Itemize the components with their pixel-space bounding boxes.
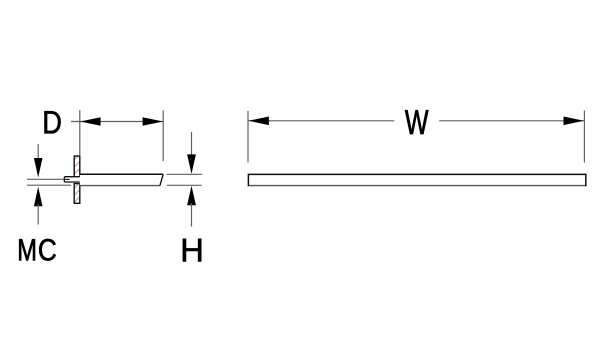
label W (405, 110, 428, 134)
W dimension line left segment (248, 120, 394, 122)
hub bottom (hatched washer lower part) (74, 184, 80, 204)
D left extension line (79, 110, 81, 156)
W bar left edge (247, 174, 249, 187)
blade top edge (80, 173, 163, 175)
D left arrowhead (80, 117, 100, 126)
MC bottom arrowhead (34, 187, 43, 207)
label H (183, 239, 201, 262)
hub top (hatched washer upper part) (74, 156, 80, 177)
MC lower extension line (27, 184, 71, 186)
D right extension line (162, 111, 164, 162)
W left extension line (247, 111, 249, 163)
W bar right edge (585, 174, 587, 187)
W left arrowhead (249, 117, 269, 126)
MC top arrowhead (34, 158, 43, 178)
W bar bottom edge (248, 185, 587, 187)
tab slot line (65, 178, 70, 180)
blade slant end edge (160, 174, 163, 185)
H top arrow stem (191, 132, 193, 156)
W bar front view (248, 174, 587, 186)
blade side view (80, 174, 163, 186)
arbor tab (64, 177, 80, 182)
H bottom arrow stem (191, 203, 193, 227)
label D (45, 111, 61, 133)
W right extension line (583, 111, 585, 163)
H upper extension line (167, 173, 202, 175)
MC upper extension line (27, 178, 64, 180)
MC top arrow stem (37, 144, 39, 160)
label MC (19, 239, 35, 260)
H bottom arrowhead (187, 186, 196, 206)
W dimension line right segment (439, 120, 584, 122)
H top arrowhead (187, 154, 196, 174)
tab outline (left, top, bottom; open right) (64, 177, 80, 182)
MC bottom arrow stem (37, 204, 39, 225)
W bar top edge (248, 173, 587, 175)
H lower extension line (167, 184, 202, 186)
D dimension line (71, 121, 163, 123)
blade bottom edge (80, 185, 160, 187)
W right arrowhead (564, 117, 584, 126)
D right arrowhead (143, 117, 163, 126)
